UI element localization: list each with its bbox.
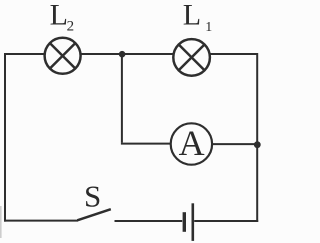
node B junction dot bbox=[254, 141, 261, 148]
wire right side bbox=[256, 53, 258, 222]
label L2 bbox=[50, 0, 75, 34]
svg-text:1: 1 bbox=[205, 20, 212, 35]
svg-text:L: L bbox=[50, 0, 68, 32]
svg-text:S: S bbox=[84, 178, 101, 213]
wire L2 to L1 through node bbox=[81, 53, 173, 55]
wire ammeter right to node B bbox=[212, 143, 258, 145]
wire node A down bbox=[121, 54, 123, 143]
lamp L1 bbox=[173, 39, 210, 76]
battery negative plate (short thick) bbox=[183, 212, 186, 232]
ammeter A bbox=[171, 123, 212, 165]
wire switch to battery bbox=[115, 220, 183, 222]
svg-text:A: A bbox=[179, 123, 205, 163]
battery positive plate (long thin) bbox=[192, 203, 195, 241]
wire left side bbox=[4, 53, 6, 222]
wire top-left to L2 bbox=[4, 53, 44, 55]
svg-text:2: 2 bbox=[67, 18, 75, 34]
switch S blade bbox=[77, 209, 111, 220]
label L1 bbox=[183, 0, 212, 35]
wire bottom-left to switch bbox=[4, 220, 78, 222]
node A junction dot bbox=[119, 51, 126, 58]
wire battery to bottom-right corner bbox=[194, 220, 258, 222]
lamp L2 bbox=[45, 38, 81, 74]
wire L1 to top-right corner bbox=[210, 53, 258, 55]
wire to ammeter left bbox=[121, 143, 170, 145]
svg-text:L: L bbox=[183, 0, 201, 31]
